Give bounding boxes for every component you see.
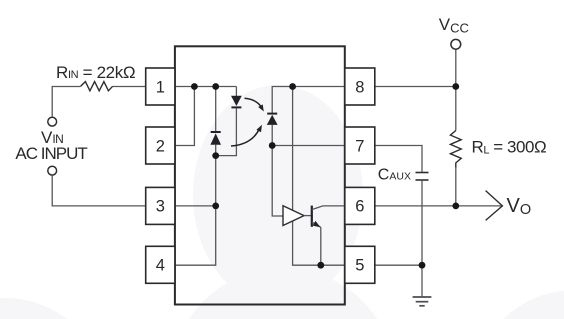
svg-text:AC INPUT: AC INPUT [15,144,87,163]
svg-text:4: 4 [156,257,165,275]
svg-text:3: 3 [156,198,165,216]
svg-text:1: 1 [156,78,165,96]
svg-text:5: 5 [355,257,364,275]
svg-text:RL = 300Ω: RL = 300Ω [472,138,547,157]
svg-text:6: 6 [355,198,364,216]
svg-text:8: 8 [355,78,364,96]
svg-text:7: 7 [355,137,364,155]
svg-text:RIN = 22kΩ: RIN = 22kΩ [56,63,135,82]
svg-text:2: 2 [156,137,165,155]
